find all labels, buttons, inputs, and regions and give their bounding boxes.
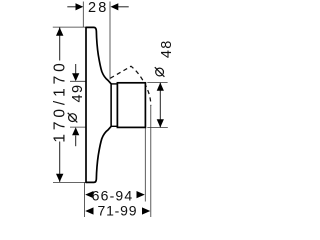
dimension 71-99: left arrow bbox=[85, 207, 93, 214]
dimension 66-94: left arrow bbox=[85, 191, 93, 198]
dimension dia49: diameter symbol bbox=[68, 113, 78, 123]
svg-text:170/170: 170/170 bbox=[52, 59, 69, 142]
dimension dia49: top arrow (pointing down) bbox=[75, 64, 77, 74]
dimension 170/170: top arrow bbox=[56, 28, 63, 36]
extension line: 170 bottom bbox=[53, 181, 86, 183]
svg-text:49: 49 bbox=[70, 84, 86, 103]
extension line: 28 left (wall) bbox=[82, 2, 84, 28]
dimension 66-94: right arrow bbox=[137, 191, 145, 198]
dimension dia48: line with arrows bbox=[159, 83, 161, 128]
handle cylinder bbox=[117, 83, 145, 128]
dimension 28: right line+arrow bbox=[118, 6, 129, 8]
svg-text:28: 28 bbox=[88, 0, 109, 16]
svg-text:48: 48 bbox=[159, 39, 175, 58]
svg-text:66-94: 66-94 bbox=[92, 187, 134, 203]
dimension 71-99: right arrow bbox=[142, 207, 150, 214]
extension line: dia49 bottom bbox=[70, 126, 87, 128]
extension line: 170 top bbox=[53, 26, 86, 28]
dimension 170/170: bottom arrow bbox=[56, 174, 63, 182]
escutcheon plate (bell profile) bbox=[86, 27, 111, 182]
extension line: handle front vertical bbox=[144, 128, 146, 202]
extension line: 28 right (to bell rim) bbox=[109, 2, 111, 80]
svg-text:71-99: 71-99 bbox=[97, 202, 137, 218]
dimension 28: left line+arrow bbox=[67, 6, 76, 8]
extension line: wall vertical to bottom dims bbox=[84, 183, 86, 217]
extension line: dia49 top bbox=[70, 80, 87, 82]
dashed tilted-handle outline bbox=[110, 66, 151, 106]
dimension 170/170: line bbox=[59, 28, 61, 61]
extension line: tilted handle front vertical bbox=[150, 106, 152, 217]
dimension dia49: bottom arrow (pointing up) bbox=[75, 136, 77, 147]
dimension dia48: diameter symbol bbox=[155, 67, 165, 77]
extension line: dia48 bottom bbox=[147, 127, 168, 129]
extension line: dia48 top bbox=[147, 82, 167, 84]
sleeve/neck bbox=[111, 84, 117, 126]
